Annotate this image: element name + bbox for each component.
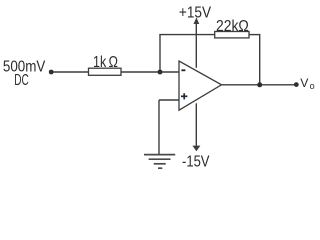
svg-text:DC: DC	[14, 72, 28, 89]
svg-text:+15V: +15V	[179, 4, 212, 21]
svg-text:V: V	[300, 76, 309, 90]
svg-text:-15V: -15V	[182, 153, 210, 170]
svg-text:22kΩ: 22kΩ	[216, 18, 249, 35]
svg-text:1k Ω: 1k Ω	[93, 54, 118, 71]
svg-text:o: o	[310, 81, 315, 91]
